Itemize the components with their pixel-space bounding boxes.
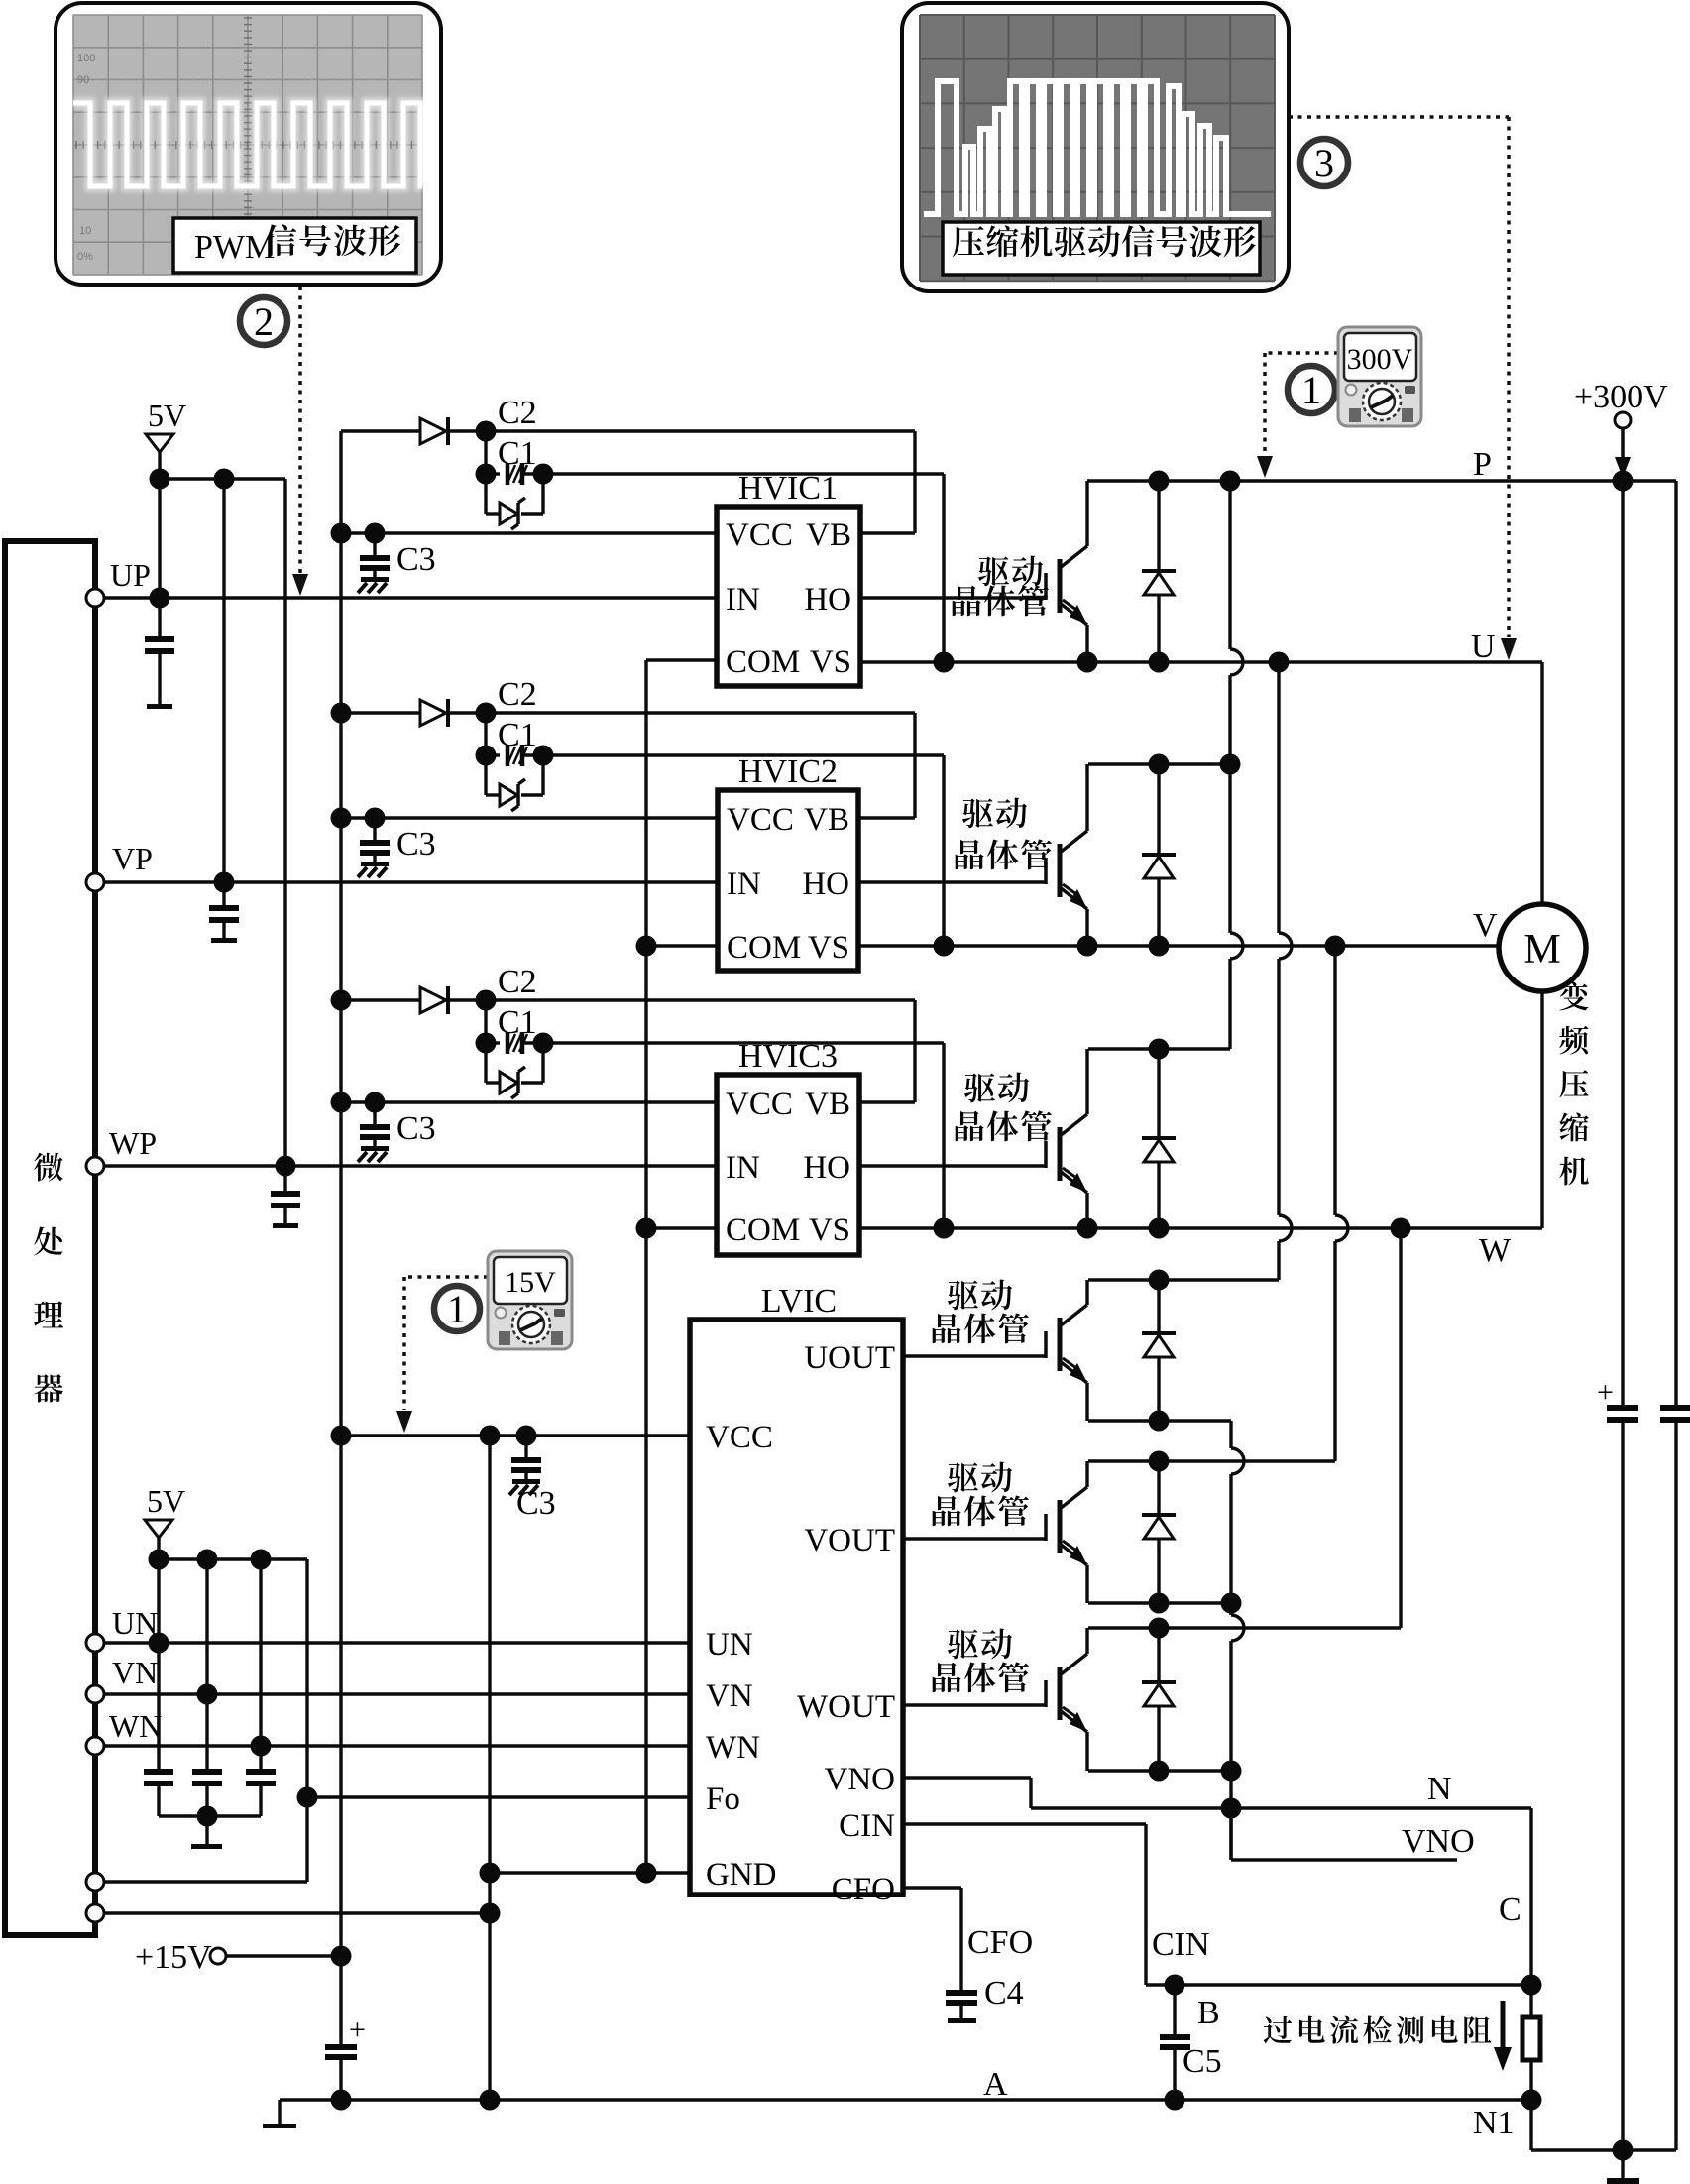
junction ground/GND vertical (480, 2090, 501, 2111)
junction C5 top (1165, 1975, 1185, 1996)
svg-text:+: + (1597, 1376, 1614, 1409)
junction V/C1 return (934, 936, 955, 957)
svg-text:VOUT: VOUT (804, 1523, 895, 1558)
diode bootstrap HVIC1 (420, 418, 446, 444)
svg-text:GND: GND (706, 1857, 777, 1893)
junction diode bottom upper W (1149, 1218, 1170, 1239)
junction C1 left (1) (476, 464, 497, 485)
terminal VN on microprocessor (86, 1685, 104, 1703)
capacitor C4 (946, 1990, 977, 2023)
wire COM stub HVIC1 (646, 658, 717, 661)
svg-text:5V: 5V (147, 1483, 185, 1519)
svg-text:UP: UP (110, 557, 151, 593)
junction C3 LVIC (516, 1426, 537, 1446)
wire uP pin8 GND line (104, 1911, 490, 1914)
junction COM bus HVIC2 (636, 936, 657, 957)
junction V/lower collector feed (1325, 936, 1346, 957)
junction WN line (251, 1736, 272, 1757)
junction C5 bottom (1165, 2090, 1185, 2111)
zener clamp (2) (484, 755, 487, 795)
wire VNO pin to N (903, 1776, 1031, 1779)
multimeter 300V (1338, 327, 1421, 426)
svg-text:P: P (1473, 446, 1492, 483)
svg-text:IN: IN (727, 866, 761, 902)
junction V/emitter (1077, 936, 1098, 957)
wire C2 feed line HVIC1 (341, 429, 420, 432)
label 驱动晶体管 (2) (956, 798, 1052, 870)
svg-text:10: 10 (79, 225, 91, 237)
junction GND vertical top (480, 1426, 501, 1446)
oscilloscope photo 2 frame (902, 3, 1289, 291)
dotted probe line 2 to UP (292, 287, 308, 596)
circled number 3 (1300, 139, 1348, 186)
svg-text:V: V (1473, 907, 1498, 944)
circled number 2 (240, 297, 287, 345)
wire ground A line (280, 2098, 1531, 2101)
wire C1 to VS vertical (1) (543, 472, 944, 475)
wire P rail right down (1674, 481, 1677, 1405)
svg-text:1: 1 (447, 1287, 467, 1331)
svg-text:B: B (1197, 1995, 1220, 2031)
junction GND row/vertical (480, 1863, 501, 1884)
transistor IGBT lower W (903, 1628, 1087, 1771)
junction bus/C3 row (1) (331, 523, 352, 544)
svg-text:HO: HO (804, 582, 851, 618)
svg-text:+: + (349, 2013, 366, 2046)
wire P rail (1087, 479, 1676, 482)
svg-text:WOUT: WOUT (797, 1689, 895, 1725)
motor M (1499, 904, 1586, 991)
wire N line (1031, 1806, 1531, 1809)
svg-text:C3: C3 (516, 1485, 556, 1522)
junction diode bottom lower W (1149, 1761, 1170, 1782)
circled number 1 (15V) (434, 1286, 480, 1331)
capacitor on line at x=263 (259, 1746, 262, 1769)
svg-text:M: M (1523, 927, 1560, 973)
wire LVIC GND row (490, 1871, 690, 1874)
junction P/upper collector feed (1220, 471, 1241, 492)
wire UN pullup vertical (157, 1559, 160, 1643)
wire COM stub HVIC3 (646, 1226, 717, 1229)
wire GND vertical (488, 1436, 491, 2100)
wire VCC bus vertical (339, 431, 342, 1956)
multimeter 15V (488, 1251, 572, 1349)
capacitor C3 to ground (1) (373, 533, 376, 555)
svg-text:Fo: Fo (706, 1782, 740, 1817)
wire VCC row (3) (341, 1100, 717, 1103)
wire U to lower collector vertical (1277, 662, 1280, 933)
label 过电流检测电阻 (1264, 2016, 1292, 2044)
svg-text:VB: VB (804, 802, 849, 838)
junction 5V/UP pullup (150, 469, 170, 490)
svg-text:90: 90 (77, 74, 89, 86)
terminal P8 on microprocessor (86, 1904, 104, 1922)
junction N1 (1521, 2090, 1542, 2111)
svg-text:300V: 300V (1347, 343, 1413, 376)
wire N1 to bottom rail (1529, 2100, 1532, 2150)
junction U/C1 return (934, 652, 955, 673)
wire VB stub HVIC3 (859, 1100, 915, 1103)
junction Fo pullup (297, 1787, 318, 1808)
terminal UP on microprocessor (86, 589, 104, 607)
IC HVIC3 (717, 1038, 859, 1255)
svg-text:VCC: VCC (727, 802, 794, 838)
svg-text:+300V: +300V (1574, 379, 1668, 415)
wire uP pin7 line (104, 1880, 307, 1883)
label 驱动晶体管 (4) (933, 1280, 1029, 1344)
junction C3 (3) (365, 1092, 386, 1113)
svg-text:VCC: VCC (726, 517, 793, 553)
junction GND row/COM bus (636, 1863, 657, 1884)
svg-text:VS: VS (808, 930, 849, 966)
junction diode bottom upper V (1149, 936, 1170, 957)
label 驱动晶体管 (1) (953, 556, 1049, 617)
terminal UN on microprocessor (86, 1634, 104, 1652)
junction N line (1221, 1798, 1242, 1819)
wire C2 feed line HVIC2 (341, 711, 420, 714)
capacitor C5 (1160, 1985, 1190, 2100)
junction VP line/pullup (214, 872, 235, 893)
svg-text:HO: HO (802, 866, 849, 902)
svg-text:C2: C2 (498, 395, 537, 431)
diode freewheel lower V (1142, 1461, 1176, 1603)
wire N to shunt vertical (1529, 1808, 1532, 2017)
label 驱动晶体管 (6) (933, 1629, 1029, 1693)
label 变频压缩机 (1559, 981, 1588, 1010)
svg-text:CIN: CIN (839, 1808, 895, 1844)
wire C1 to VS vertical (3) (543, 1041, 944, 1044)
junction CIN/shunt (1521, 1975, 1542, 1996)
wire UN line (104, 1641, 690, 1644)
junction W/lower collector feed (1391, 1218, 1411, 1239)
svg-text:VNO: VNO (825, 1762, 896, 1797)
junction bus/LVIC VCC row (331, 1426, 352, 1446)
capacitor DC bus electrolytic (1597, 1376, 1638, 1423)
svg-text:COM: COM (726, 644, 800, 680)
ground stub below caps (205, 1816, 208, 1844)
wire LVIC VCC row (341, 1434, 690, 1437)
wire VCC row (1) (341, 531, 717, 534)
diode freewheel lower W (1142, 1628, 1176, 1771)
svg-text:A: A (983, 2066, 1008, 2103)
capacitor C3 LVIC (524, 1436, 527, 1457)
capacitor C3 to ground (2) (373, 818, 376, 840)
junction rail/UN pullup (149, 1550, 169, 1570)
wire WN line (104, 1744, 690, 1747)
svg-text:15V: 15V (505, 1266, 556, 1299)
junction rail/WN pullup (251, 1550, 272, 1570)
capacitor C1 (1) (486, 472, 500, 475)
PWM square waveform (73, 103, 422, 186)
ground symbol bottom right (1621, 2150, 1624, 2178)
diode bootstrap HVIC3 (420, 987, 446, 1013)
junction diode top upper W (1149, 1039, 1170, 1060)
wire V lower collector node (1088, 1459, 1335, 1462)
junction diode bottom lower V (1149, 1593, 1170, 1614)
svg-text:VP: VP (112, 841, 153, 876)
label 驱动晶体管 (3) (956, 1073, 1052, 1142)
wire W to motor (1540, 991, 1543, 1228)
junction C1 right (2) (533, 746, 554, 766)
wire VB vertical (1) (913, 431, 916, 533)
wire lower emitters vertical (1229, 1421, 1232, 1448)
dotted probe line 1 to VCC15V (396, 1277, 488, 1433)
svg-text:HVIC2: HVIC2 (738, 753, 838, 790)
junction C3 (2) (365, 808, 386, 829)
svg-text:COM: COM (727, 930, 801, 966)
junction VN line (197, 1684, 218, 1705)
junction diode bottom upper U (1149, 652, 1170, 673)
svg-text:PWM: PWM (194, 229, 275, 266)
svg-text:100: 100 (77, 53, 95, 64)
wire VP pullup vertical (222, 479, 225, 882)
wire VB vertical (2) (913, 713, 916, 818)
junction GND vertical/pin8 (480, 1903, 501, 1924)
svg-text:CFO: CFO (832, 1872, 895, 1907)
svg-text:C3: C3 (396, 1110, 436, 1147)
svg-text:CFO: CFO (967, 1924, 1033, 1961)
IC LVIC (690, 1283, 903, 1907)
junction WP line/pullup (276, 1156, 296, 1177)
svg-text:IN: IN (726, 582, 760, 618)
junction 5V/VP pullup (214, 469, 235, 490)
wire V line (858, 944, 1499, 947)
zener clamp (3) (484, 1043, 487, 1083)
ground symbol left (278, 2100, 281, 2124)
wire VCC row (2) (341, 816, 718, 819)
junction bootstrap node HVIC3 (476, 990, 497, 1011)
svg-text:C1: C1 (498, 435, 537, 472)
junction diode top upper U (1149, 471, 1170, 492)
svg-text:C2: C2 (498, 676, 537, 713)
wire W upper collector node (1088, 1047, 1230, 1050)
wire CFO pin (903, 1886, 961, 1889)
junction caps common (197, 1806, 218, 1827)
diode freewheel upper V (1142, 764, 1176, 946)
zener clamp (1) (484, 474, 487, 514)
junction U/lower collector feed (1269, 652, 1290, 673)
svg-text:WN: WN (109, 1708, 162, 1744)
wire W line (859, 1226, 1542, 1229)
label 压缩机驱动信号波形 (943, 222, 1260, 275)
wire COM stub HVIC2 (646, 944, 718, 947)
capacitor on line at x=209 (205, 1694, 208, 1769)
wire UP pullup vertical (158, 479, 161, 598)
svg-text:N1: N1 (1473, 2105, 1515, 2141)
wire shunt to N1 (1529, 2060, 1532, 2100)
svg-text:HVIC1: HVIC1 (738, 470, 838, 507)
junction UP line/pullup (150, 588, 170, 609)
svg-text:C2: C2 (498, 964, 537, 1000)
dotted probe line 3 to U (1289, 117, 1517, 660)
junction UN line (149, 1633, 169, 1654)
junction bootstrap node HVIC2 (476, 703, 497, 724)
junction C1 left (2) (476, 746, 497, 766)
IC HVIC2 (718, 753, 858, 971)
capacitor on VP (222, 882, 225, 905)
junction bus/+15V (331, 1946, 352, 1967)
dotted probe line 1 to P (1257, 353, 1338, 478)
junction diode top lower W (1149, 1618, 1170, 1639)
wire VB stub HVIC1 (860, 531, 915, 534)
junction bus/C2 (3) (331, 990, 352, 1011)
wire U lower collector node (1088, 1278, 1279, 1281)
capacitor C3 to ground (3) (373, 1102, 376, 1124)
svg-text:VB: VB (805, 1087, 850, 1122)
wire WP pullup vertical (283, 479, 286, 1166)
svg-text:C4: C4 (984, 1975, 1024, 2012)
junction C1 right (3) (533, 1033, 554, 1054)
capacitor on UP (158, 598, 161, 636)
wire WN pullup vertical (259, 1559, 262, 1746)
svg-text:LVIC: LVIC (761, 1283, 837, 1320)
wire U line (860, 660, 1542, 663)
wire C2 feed line HVIC3 (341, 998, 420, 1001)
diode bootstrap HVIC2 (420, 700, 446, 726)
svg-text:W: W (1479, 1232, 1512, 1269)
svg-text:C1: C1 (498, 717, 537, 753)
circled number 1 (300V) (1288, 366, 1335, 413)
microprocessor block 微处理器 (5, 541, 95, 1935)
svg-text:2: 2 (254, 299, 274, 344)
junction V lower emitter (1221, 1593, 1242, 1614)
capacitor on line at x=160 (157, 1643, 160, 1769)
svg-text:UN: UN (706, 1627, 753, 1663)
junction diode top lower U (1149, 1270, 1170, 1291)
wire W lower emitter node (1088, 1769, 1231, 1772)
wire COM bus vertical (644, 660, 647, 1873)
junction COM bus HVIC3 (636, 1218, 657, 1239)
wire U lower emitter node (1088, 1419, 1231, 1422)
svg-text:C: C (1499, 1892, 1521, 1928)
junction bootstrap node HVIC1 (476, 421, 497, 442)
svg-text:VB: VB (806, 517, 851, 553)
svg-text:VCC: VCC (706, 1420, 773, 1455)
wire CIN pin (903, 1822, 1146, 1825)
svg-text:N: N (1427, 1771, 1452, 1807)
svg-text:VNO: VNO (1402, 1823, 1475, 1860)
wire node to C1 (3) (484, 1000, 487, 1043)
wire VN line (104, 1692, 690, 1695)
junction W/C1 return (934, 1218, 955, 1239)
terminal WP on microprocessor (86, 1157, 104, 1175)
svg-text:0%: 0% (77, 251, 93, 263)
junction C1 left (3) (476, 1033, 497, 1054)
wire node to C1 (2) (484, 713, 487, 755)
transistor IGBT lower U (903, 1280, 1087, 1421)
svg-text:+15V: +15V (135, 1939, 212, 1976)
svg-text:5V: 5V (148, 398, 186, 433)
wire C1 to VS vertical (2) (543, 753, 944, 756)
transistor IGBT upper V (858, 764, 1087, 946)
junction C3 (1) (365, 523, 386, 544)
label PWM信号波形 (173, 218, 416, 273)
wire P to VW collectors vertical (1228, 481, 1231, 649)
resistor overcurrent shunt (1522, 2017, 1540, 2060)
svg-text:UOUT: UOUT (804, 1340, 895, 1376)
transistor IGBT lower V (903, 1461, 1087, 1603)
wire 5V to Fo vertical (305, 1559, 308, 1882)
wire V lower emitter node (1088, 1601, 1231, 1604)
wire caps common bottom (159, 1814, 261, 1817)
capacitor C1 (2) (486, 753, 500, 756)
svg-text:C3: C3 (396, 541, 436, 578)
svg-text:HO: HO (803, 1150, 850, 1186)
wire Fo line (307, 1795, 690, 1798)
label 驱动晶体管 (5) (933, 1462, 1029, 1527)
svg-text:VS: VS (810, 644, 851, 680)
svg-text:C5: C5 (1183, 2043, 1222, 2080)
junction electrolytic/ground line (331, 2090, 352, 2111)
wire WP line (104, 1164, 717, 1167)
oscilloscope photo 1 frame (56, 3, 441, 285)
wire W lower collector node (1088, 1626, 1401, 1629)
wire U to motor (1540, 662, 1543, 904)
junction diode bottom lower U (1149, 1411, 1170, 1432)
junction C1 right (1) (533, 464, 554, 485)
wire VNO stub (1229, 1808, 1232, 1860)
svg-text:COM: COM (726, 1212, 800, 1248)
svg-text:VN: VN (112, 1655, 158, 1690)
wire VB stub HVIC2 (858, 816, 915, 819)
svg-text:WP: WP (109, 1125, 157, 1161)
power +15V input (135, 1939, 341, 1976)
current arrow (1494, 2001, 1512, 2071)
svg-text:CIN: CIN (1152, 1926, 1210, 1963)
diode freewheel upper W (1142, 1049, 1176, 1228)
wire UP line (104, 596, 717, 599)
capacitor C1 (3) (486, 1041, 500, 1044)
junction bus/C3 row (2) (331, 808, 352, 829)
IC HVIC1 (717, 470, 860, 686)
junction P/+300V (1613, 471, 1634, 492)
junction rail/VN pullup (197, 1550, 218, 1570)
terminal VP on microprocessor (86, 873, 104, 891)
svg-text:UN: UN (112, 1605, 158, 1641)
capacitor on WP (283, 1166, 286, 1191)
capacitor DC bus film (1660, 1405, 1690, 1423)
svg-text:VCC: VCC (726, 1087, 793, 1122)
svg-text:U: U (1471, 629, 1496, 665)
power +300V input (1574, 379, 1668, 478)
svg-text:VS: VS (809, 1212, 850, 1248)
diode freewheel upper U (1142, 481, 1176, 662)
wire V to lower collector vertical (1333, 946, 1336, 1215)
junction V upper collector (1220, 754, 1241, 775)
wire +300V rail down (1621, 481, 1624, 1405)
terminal P7 on microprocessor (86, 1873, 104, 1891)
svg-text:C3: C3 (396, 826, 436, 862)
svg-text:VN: VN (706, 1678, 753, 1714)
capacitor electrolytic +15V (325, 1956, 366, 2100)
junction W lower emitter (1221, 1761, 1242, 1782)
junction diode top upper V (1149, 754, 1170, 775)
compressor drive waveform (924, 81, 1271, 214)
power 5V source lower (145, 1483, 185, 1559)
junction W/emitter (1077, 1218, 1098, 1239)
wire VP line (104, 880, 718, 883)
wire node to C1 (1) (484, 431, 487, 474)
svg-text:C1: C1 (498, 1004, 537, 1041)
svg-text:HVIC3: HVIC3 (738, 1038, 838, 1075)
junction bus/C2 (2) (331, 703, 352, 724)
wire V upper collector node (1088, 762, 1230, 765)
junction bus/C3 row (3) (331, 1092, 352, 1113)
wire 5V rail upper (160, 477, 285, 480)
transistor IGBT upper U (860, 481, 1087, 662)
svg-text:1: 1 (1301, 368, 1321, 412)
junction U/emitter (1077, 652, 1098, 673)
